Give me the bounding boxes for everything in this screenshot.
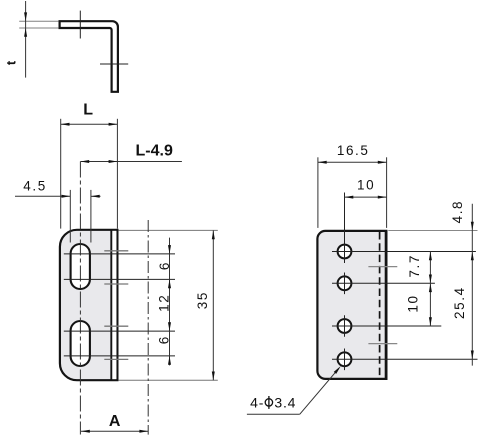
hidden centerline mark c <box>104 325 128 327</box>
svg-text:t: t <box>4 60 19 65</box>
leader arrowhead <box>334 366 341 374</box>
4.5 extension right <box>90 190 92 243</box>
hole 4 vertical centerline <box>344 349 346 371</box>
35 arrow top <box>212 230 215 239</box>
svg-text:4.5: 4.5 <box>23 179 47 194</box>
dimension 35 line <box>212 230 214 380</box>
16.5 extension left <box>317 157 319 228</box>
svg-text:6: 6 <box>157 261 172 270</box>
dimension A line <box>81 430 148 432</box>
dimension 16.5 line <box>318 161 387 163</box>
A arrow left <box>81 430 90 433</box>
white band at bend edge <box>112 231 116 379</box>
16.5 arrow right <box>378 161 387 164</box>
7.7 arrow up at row1 <box>429 252 432 261</box>
L arrow right <box>109 123 118 126</box>
A arrow right <box>139 430 148 433</box>
hole row line 2 <box>332 282 435 284</box>
t arrow up <box>24 28 27 37</box>
4.8 arrow down at top edge <box>471 222 474 231</box>
svg-text:16.5: 16.5 <box>337 143 370 158</box>
slot 2 <box>71 321 90 366</box>
L-profile side view bent strip <box>60 21 118 92</box>
leader diagonal <box>300 369 339 415</box>
7.7 arrow down at row2 <box>429 275 432 284</box>
thick right edge <box>385 230 388 380</box>
bend dashed line <box>379 232 381 378</box>
svg-text:7.7: 7.7 <box>407 254 422 278</box>
svg-text:6: 6 <box>156 335 171 344</box>
profile horizontal centerline <box>100 63 128 65</box>
hole row line 3 <box>64 330 175 332</box>
hidden centerline mark b <box>104 283 128 285</box>
arrow down at row3 <box>168 322 171 331</box>
25.4 arrow up at row1 <box>471 252 474 261</box>
hole 3 <box>338 319 352 333</box>
svg-text:L-4.9: L-4.9 <box>136 143 173 160</box>
bottom edge extension <box>119 379 218 381</box>
arrow down at row1 <box>168 245 171 254</box>
L arrow left <box>61 123 70 126</box>
10 arrow up at row2 <box>429 283 432 292</box>
hole row line 1 <box>64 253 175 255</box>
leader underline <box>247 413 300 415</box>
svg-text:4-: 4- <box>250 394 264 410</box>
svg-text:10: 10 <box>405 294 420 312</box>
svg-text:3.4: 3.4 <box>274 394 296 410</box>
4.5 arrow right-pointing <box>62 195 71 198</box>
diameter symbol circle <box>265 399 272 406</box>
arrow up at row4 <box>168 356 171 365</box>
hole row line 1 <box>332 251 476 253</box>
hole row line 2 <box>64 278 175 280</box>
hole 2 <box>338 276 352 290</box>
t extension line bottom <box>19 27 58 29</box>
svg-text:10: 10 <box>357 178 375 193</box>
hidden centerline mark d <box>104 358 128 360</box>
35 arrow bottom <box>212 372 215 381</box>
top edge extension <box>119 229 218 231</box>
hole row line 4 <box>332 358 478 360</box>
t dimension line <box>25 1 27 78</box>
L extension left <box>60 119 62 229</box>
4.5 extension left <box>69 190 71 243</box>
10 arrow right <box>378 196 387 199</box>
hole 2 vertical centerline <box>344 273 346 295</box>
hole row line 4 <box>64 355 175 357</box>
hole 1 <box>338 245 352 259</box>
slot centerline vertical <box>79 162 81 435</box>
4.5 arrow left-pointing <box>91 195 100 198</box>
right view plate body <box>317 231 386 379</box>
dimension 4.8-25.4 line <box>471 204 473 366</box>
hole 3 vertical centerline <box>344 315 346 337</box>
hole 4 <box>338 352 352 366</box>
10 arrow left <box>345 196 354 199</box>
diameter symbol bar <box>268 396 270 409</box>
profile vertical centerline <box>79 11 81 39</box>
hidden slot centerline mark b <box>368 343 397 345</box>
slot 1 <box>71 244 90 289</box>
hole row line 3 <box>332 325 441 327</box>
dimension 4.5 line left <box>15 195 70 197</box>
dimension 7.7-10 line <box>429 252 431 327</box>
L-4.9 arrow left <box>80 160 89 163</box>
dimension L-4.9 line <box>80 161 181 163</box>
L-4.9 arrow right <box>109 160 118 163</box>
hidden centerline mark a <box>104 250 128 252</box>
top edge extension right <box>388 230 477 232</box>
svg-text:35: 35 <box>195 291 210 309</box>
25.4 arrow down at row4 <box>471 351 474 360</box>
svg-text:25.4: 25.4 <box>452 286 467 319</box>
hole 1 vertical centerline <box>344 193 346 264</box>
L extension right <box>116 119 118 229</box>
bend inner line <box>110 230 112 380</box>
dimension 4.5 line right <box>91 195 101 197</box>
svg-text:L: L <box>83 102 93 119</box>
bend axis dash-dot line <box>147 220 149 435</box>
svg-text:4.8: 4.8 <box>450 200 465 224</box>
dimension 6-12-6 line <box>169 238 171 366</box>
10 arrow down at row3 <box>429 317 432 326</box>
svg-text:12: 12 <box>156 294 171 312</box>
front view plate body <box>60 230 118 380</box>
t extension line top <box>19 20 58 22</box>
arrow up at row2 <box>168 279 171 288</box>
16.5 arrow left <box>318 161 327 164</box>
hidden slot centerline mark a <box>368 266 397 268</box>
dimension L line <box>61 123 118 125</box>
16.5 extension right <box>386 157 388 228</box>
svg-text:A: A <box>109 413 121 430</box>
dimension 10 line <box>345 196 387 198</box>
t arrow down <box>24 12 27 21</box>
